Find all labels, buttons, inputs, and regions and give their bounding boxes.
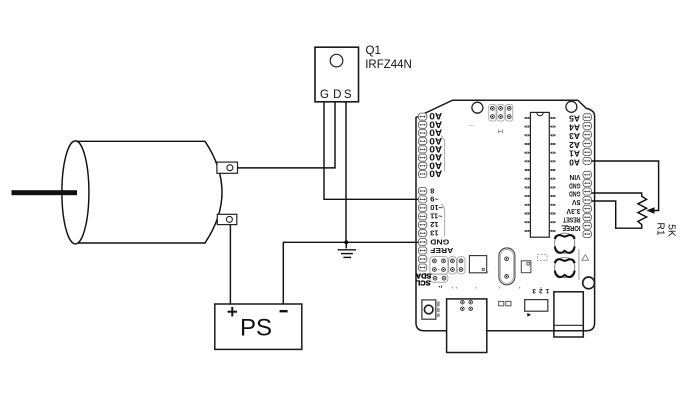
svg-text:A1: A1	[569, 149, 580, 159]
svg-text:AREF: AREF	[430, 246, 453, 255]
svg-text:PS: PS	[240, 315, 272, 342]
svg-text:IRFZ44N: IRFZ44N	[365, 59, 412, 71]
svg-text:12: 12	[430, 220, 438, 229]
svg-text:5K: 5K	[666, 224, 677, 237]
svg-text:G: G	[320, 89, 329, 101]
svg-text:IOREF: IOREF	[562, 224, 581, 231]
svg-text:3.3V: 3.3V	[566, 207, 580, 214]
svg-text:GND: GND	[569, 181, 581, 188]
svg-text:123: 123	[529, 287, 549, 294]
svg-text:R1: R1	[654, 222, 665, 235]
svg-text:~10: ~10	[430, 203, 443, 212]
svg-text:A5: A5	[569, 114, 580, 124]
svg-text:8: 8	[430, 186, 434, 195]
svg-text:GND: GND	[569, 190, 581, 197]
svg-text:RESET: RESET	[563, 215, 581, 222]
svg-text:GND: GND	[430, 237, 450, 246]
svg-text:5V: 5V	[572, 198, 581, 205]
svg-text:SCL: SCL	[415, 279, 430, 288]
svg-text:13: 13	[430, 229, 438, 238]
svg-text:S: S	[344, 89, 352, 101]
svg-text:Q1: Q1	[366, 45, 381, 57]
svg-text:VIN: VIN	[570, 173, 581, 180]
svg-text:A0: A0	[569, 157, 580, 167]
svg-text:~9: ~9	[430, 195, 439, 204]
svg-text:A2: A2	[569, 140, 580, 150]
svg-text:D: D	[333, 89, 341, 101]
svg-text:A3: A3	[569, 131, 580, 141]
svg-text:~11: ~11	[430, 212, 442, 221]
svg-text:A0: A0	[429, 168, 442, 179]
svg-text:A4: A4	[569, 122, 580, 132]
